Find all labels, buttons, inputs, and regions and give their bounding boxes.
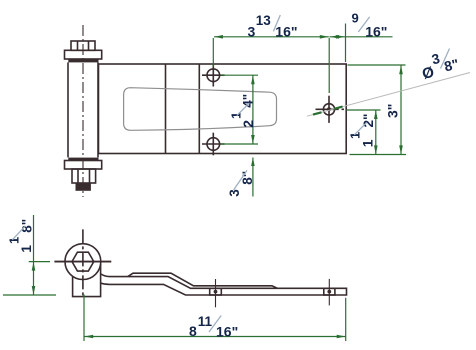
dimension 8 11/16: dim line (84, 295, 346, 342)
dimension 8 11/16: left arrow (84, 335, 93, 339)
dimension 1 1/8: bottom extension line (3, 294, 56, 296)
dimension 3 13/16: left extension line (212, 38, 214, 67)
leader diameter 3/8: leader line (307, 49, 470, 117)
dimension 3 inch: bottom arrow (399, 145, 403, 154)
top washer (65, 50, 102, 59)
leader diameter 3/8: green dash lower-left (313, 112, 322, 114)
dimension 8 11/16: right extension line (345, 298, 347, 341)
svg-text:9: 9 (352, 11, 359, 26)
svg-text:1: 1 (18, 245, 34, 253)
bolt threaded tip (76, 183, 91, 191)
svg-text:4": 4" (241, 94, 256, 108)
dimension 3 inch: bottom extension line (350, 154, 407, 156)
dimension 1 1/8: extension at eye center (29, 261, 50, 263)
hole H1 (top small hole) (202, 64, 225, 87)
dimension 9/16: right arrow (336, 35, 345, 39)
eye outer circle (side view) (65, 244, 101, 280)
dimension 3 inch: top extension line (348, 64, 406, 66)
dimension 1 1/2: fraction slash (354, 122, 367, 135)
dimension 1 1/8: dim line (3, 215, 56, 295)
svg-text:11: 11 (198, 314, 213, 329)
dimension 9/16: dim line (329, 11, 392, 94)
dimension 1 1/2: top arrow (374, 110, 378, 119)
dimension 2 1/4: top extension line (221, 74, 259, 76)
top dark band (68, 59, 98, 62)
strap hole 2 (side view box) (324, 279, 335, 306)
strap side view: upper segment top edge (101, 274, 347, 295)
dimension 3/8 plate: arrow (251, 158, 255, 167)
dimension 1 1/2: extension from hole (347, 109, 381, 111)
dimension 2 1/4: dim line (221, 75, 259, 144)
dimension 3 13/16: left arrow (214, 35, 223, 39)
svg-text:1: 1 (360, 139, 376, 147)
dimension 1 1/2: dim line (347, 110, 381, 154)
dimension 3 13/16: dim line (213, 13, 328, 67)
dimension 2 1/4: bottom arrow (251, 135, 255, 144)
svg-text:3": 3" (385, 104, 401, 118)
svg-text:16": 16" (275, 24, 297, 40)
pin centerline (82, 25, 84, 197)
eye vertical centerline (82, 229, 84, 296)
svg-text:16": 16" (216, 323, 238, 339)
dimension 2 1/4: fraction slash (237, 103, 250, 116)
hole H2 (bottom small hole) (202, 133, 225, 156)
dimension 8 11/16: right arrow (337, 335, 346, 339)
leader diameter 3/8: green dash upper-right (334, 107, 343, 109)
svg-text:1: 1 (229, 112, 244, 119)
dimension 2 1/4: bottom extension line (221, 143, 259, 145)
svg-text:3: 3 (248, 23, 256, 39)
strap side view: far top edge (upper) (128, 273, 278, 288)
svg-text:13: 13 (256, 13, 272, 28)
svg-text:2: 2 (240, 120, 256, 128)
dimension 9/16: right extension line (345, 24, 347, 63)
bolt hex head (71, 41, 95, 50)
dimension 9/16: fraction slash (358, 17, 369, 32)
bottom washer (65, 161, 102, 170)
dimension 3/8 plate: dim line (227, 158, 255, 197)
dimension 9/16: shared extension line to right hole (328, 38, 330, 93)
svg-text:1: 1 (348, 132, 363, 139)
hole H3 (right hole) (316, 96, 345, 123)
bottom dark band (68, 158, 98, 161)
plate outline (99, 64, 347, 154)
dimension 2 1/4: top arrow (251, 75, 255, 84)
dimension 9/16: left arrow (330, 35, 339, 39)
hex nut seen through eye (72, 252, 94, 271)
dimension 3 inch: dim line (348, 65, 407, 155)
dimension 3/8 plate: fraction slash (234, 170, 247, 190)
strap hole 1 (side view box) (210, 279, 222, 307)
leader diameter 3/8: fraction slash (441, 49, 450, 69)
dimension 3 13/16: right arrow (320, 35, 329, 39)
dimension 8 11/16: left extension line (83, 295, 85, 342)
dimension 3 13/16: fraction slash (273, 15, 280, 31)
svg-text:16": 16" (365, 24, 387, 40)
pin barrel (68, 62, 98, 157)
dimension 1 1/8: fraction slash (12, 226, 25, 240)
svg-text:8: 8 (189, 323, 197, 339)
dimension 1 1/2: bottom arrow (374, 145, 378, 154)
eye body below (73, 264, 101, 296)
strap seen in top view (gray) (124, 88, 277, 131)
dimension 1 1/8: up arrow (32, 262, 36, 271)
dimension 1 1/8: down arrow (32, 286, 36, 295)
bottom hex nut (72, 169, 96, 183)
dimension 3 inch: top arrow (399, 65, 403, 74)
dimension 8 11/16: fraction slash (209, 316, 221, 333)
bend line 1 (165, 64, 167, 154)
bend line 2 (198, 64, 200, 154)
eye horizontal centerline (54, 261, 111, 263)
